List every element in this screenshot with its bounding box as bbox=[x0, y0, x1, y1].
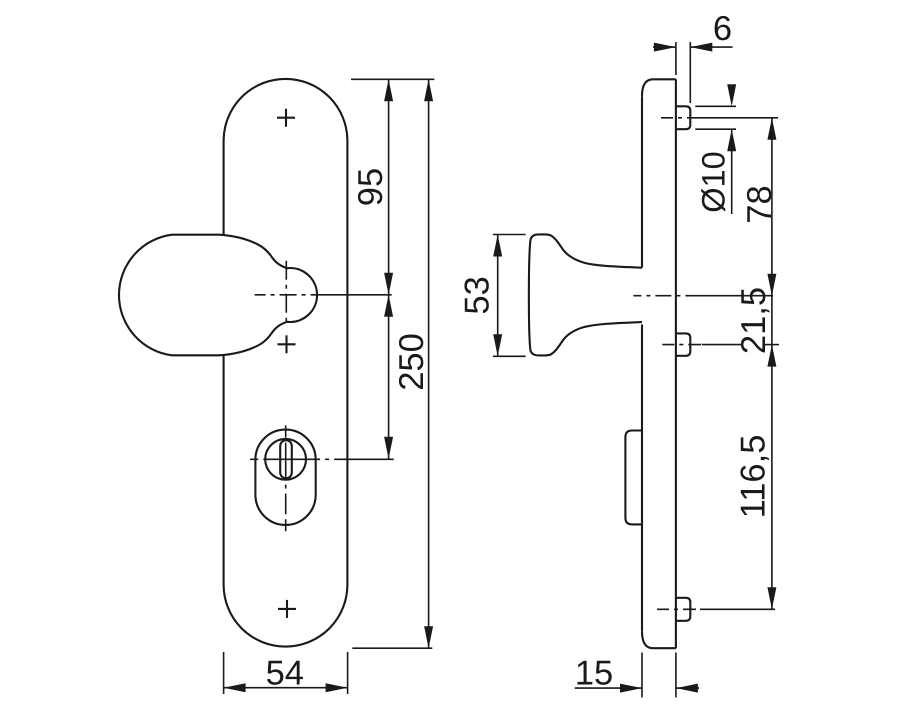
screw cross below knob bbox=[278, 335, 296, 353]
svg-text:54: 54 bbox=[266, 655, 304, 693]
knob side centerline bbox=[633, 295, 773, 297]
svg-text:78: 78 bbox=[741, 185, 779, 223]
knob centerline vertical bbox=[285, 261, 287, 326]
extension line plate bottom bbox=[352, 647, 432, 649]
svg-text:95: 95 bbox=[352, 168, 390, 206]
dimension 95 line (top to knob centre) + continuation to cylinder centre bbox=[388, 79, 390, 459]
svg-text:53: 53 bbox=[458, 276, 496, 314]
knob side outline bbox=[529, 234, 642, 355]
pin 1 (top) bbox=[676, 106, 690, 129]
screw cross bottom bbox=[278, 600, 296, 618]
dimension 6 (top) bbox=[675, 42, 677, 75]
plate side outline bbox=[642, 79, 676, 648]
dimension 15 (bottom) bbox=[641, 653, 643, 698]
knob centerline horizontal bbox=[255, 294, 392, 296]
pin3 centerline bbox=[657, 608, 775, 610]
svg-text:15: 15 bbox=[575, 655, 613, 693]
screw cross top bbox=[277, 109, 295, 127]
keyhole centerline horizontal bbox=[250, 458, 394, 460]
svg-text:21,5: 21,5 bbox=[735, 287, 773, 354]
keyhole outer oval bbox=[255, 430, 315, 525]
dimension Ø10 bbox=[695, 105, 736, 107]
knob side white fill bbox=[529, 234, 644, 355]
keyhole centerline vertical bbox=[285, 425, 287, 531]
extension line plate top bbox=[351, 78, 434, 80]
svg-text:116,5: 116,5 bbox=[735, 435, 773, 519]
dimension 53 (knob) bbox=[493, 234, 526, 236]
pin 3 (bottom) bbox=[676, 598, 690, 621]
pin1 centerline bbox=[661, 117, 778, 119]
svg-text:Ø10: Ø10 bbox=[696, 151, 732, 212]
key slot bbox=[280, 440, 292, 478]
cylinder bump side bbox=[625, 431, 642, 525]
dimension 54 bottom bbox=[223, 652, 225, 694]
dimension 78 / 21,5 / 116,5 shared line bbox=[771, 118, 773, 610]
knob front (white fill hides plate edge) bbox=[119, 235, 317, 356]
plate front outline (stadium shape) bbox=[224, 79, 348, 647]
svg-text:250: 250 bbox=[393, 333, 431, 391]
pin2 centerline bbox=[662, 344, 779, 346]
cylinder circle bbox=[265, 439, 306, 480]
dimension 250 line bbox=[428, 79, 430, 648]
pin 2 (middle) bbox=[676, 333, 690, 355]
svg-text:6: 6 bbox=[713, 10, 732, 48]
